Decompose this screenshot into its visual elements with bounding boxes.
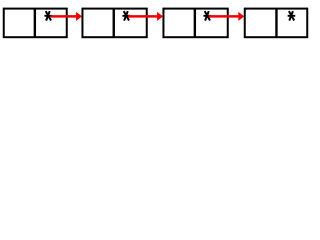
node 3 box <box>163 9 227 38</box>
arrow 3 head <box>238 12 244 21</box>
linked-list diagram <box>0 0 310 44</box>
node 2 pointer asterisk <box>122 11 130 21</box>
node 3 pointer asterisk <box>203 11 211 21</box>
node 3 divider <box>194 9 196 38</box>
node 4 box <box>245 9 308 38</box>
node 1 divider <box>34 9 36 38</box>
node 4 divider <box>275 9 277 38</box>
arrow 3 shaft <box>209 15 239 18</box>
node 2 divider <box>113 9 115 38</box>
arrow 1 head <box>76 12 82 21</box>
arrow 2 shaft <box>128 15 158 18</box>
node 1 pointer asterisk <box>44 11 52 21</box>
arrow 2 head <box>157 12 163 21</box>
arrow 1 shaft <box>51 15 78 18</box>
node 1 box <box>4 9 67 38</box>
node 2 box <box>82 9 146 38</box>
node 4 pointer asterisk <box>288 11 296 21</box>
